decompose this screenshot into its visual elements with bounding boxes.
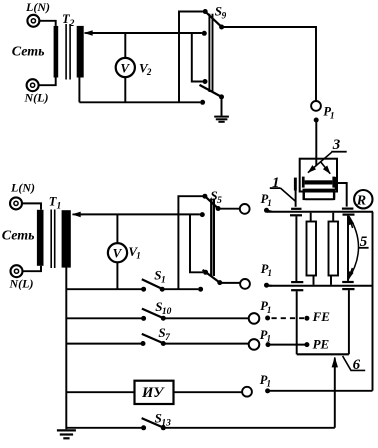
svg-text:P1: P1	[261, 262, 272, 278]
switch S5 pole1 feed vertical	[178, 196, 202, 289]
wire T2 tap to S9 contact	[92, 32, 202, 34]
svg-text:V: V	[113, 245, 123, 260]
node: dot P1 (S5 pole2)	[264, 283, 269, 288]
svg-text:T2: T2	[62, 12, 75, 29]
svg-text:P1: P1	[260, 373, 271, 389]
svg-text:L(N): L(N)	[10, 181, 35, 195]
node: dot P1 (S10 row)	[265, 316, 270, 321]
switch S10 blade	[142, 309, 163, 319]
wire T1 tap to S5	[75, 213, 200, 215]
wire S7 to P1	[163, 343, 248, 345]
wire T1 secondary bottom / ground bus	[65, 268, 67, 430]
wire V1 top stem	[116, 214, 118, 243]
bottom rail wire	[268, 285, 373, 287]
svg-text:S9: S9	[215, 4, 227, 22]
wire L(N) to T1 primary top	[22, 203, 41, 209]
wire S7 row left	[66, 343, 143, 345]
node: contact dot S1 right	[160, 287, 165, 292]
terminal L(N) of T1	[10, 197, 22, 209]
dashed wire P1 to FE	[272, 317, 305, 319]
terminal P1 (S7 row)	[249, 339, 260, 350]
node: contact dot S5 pole1 lower	[200, 212, 205, 217]
label 5 leader arc	[348, 216, 359, 280]
node: contact dot S5 pole1 output	[216, 206, 221, 211]
wire S5 pole1 output to P1	[218, 208, 240, 210]
upper roller of device 3	[302, 177, 335, 188]
box left edge wire	[296, 291, 298, 354]
lower roller of device 3	[303, 189, 336, 200]
ground bottom-left	[57, 430, 76, 438]
right plate below bottom rail	[342, 288, 354, 290]
node: contact dot S13 left	[141, 425, 146, 430]
electrode device box (item 3)	[300, 159, 337, 192]
svg-text:6: 6	[353, 357, 361, 373]
svg-text:V2: V2	[139, 60, 152, 77]
switch S13 blade	[142, 418, 164, 428]
terminal P1 (S10 row)	[249, 313, 260, 324]
svg-text:P1: P1	[260, 299, 271, 315]
wire P1 dot to bottom rail	[267, 284, 273, 286]
terminal N(L) of T1	[11, 265, 23, 277]
circled R instrument	[354, 190, 372, 209]
terminal P1 (S5 pole1)	[240, 204, 250, 214]
left electrode bracket (item 1)	[294, 178, 297, 191]
svg-text:FE: FE	[312, 309, 331, 324]
wire S13 to appliance arrow	[163, 427, 334, 429]
tap arrow on T1 secondary	[73, 213, 83, 215]
wire S1 row left	[66, 288, 143, 290]
svg-text:ИУ: ИУ	[141, 385, 165, 401]
svg-text:N(L): N(L)	[9, 277, 34, 291]
node: contact dot S5 pole2	[203, 270, 208, 275]
svg-text:P1: P1	[261, 192, 272, 208]
node PE	[304, 342, 309, 347]
switch S5 pole1 blade	[205, 196, 218, 208]
wire S10 to P1	[163, 317, 248, 319]
node: contact dot S9 pole1 top	[203, 9, 208, 14]
switch S9 pole1 blade	[205, 12, 221, 27]
node: dot under P1 top-right	[314, 118, 319, 123]
svg-text:PE: PE	[313, 337, 330, 352]
mechanical link S9	[209, 14, 212, 92]
left plate below bottom rail	[291, 289, 303, 291]
svg-text:S1: S1	[154, 268, 165, 286]
label 6 leader	[343, 356, 366, 370]
wire S9 feed vertical	[179, 12, 203, 103]
transformer T1	[37, 210, 71, 269]
svg-text:L(N): L(N)	[25, 0, 50, 14]
node: contact dot S13 right	[161, 425, 166, 430]
wire P1 dot to top rail	[267, 211, 273, 212]
terminal P1 (ИУ row)	[242, 387, 252, 397]
wire V2 bottom stem	[124, 77, 126, 102]
wire S1 to S5 lower contact	[162, 288, 198, 290]
left electrode plate above top rail	[291, 208, 301, 210]
right plate above bottom rail	[342, 281, 354, 283]
tap arrow on T2 secondary	[85, 32, 95, 34]
svg-text:N(L): N(L)	[24, 91, 49, 105]
wire V1 bottom stem	[116, 262, 118, 289]
wire L(N) to T2 primary top	[40, 21, 56, 26]
terminal L(N) of T2	[27, 15, 39, 27]
node: contact dot S5 pole2 lower	[198, 287, 203, 292]
node: contact dot S10 right	[161, 316, 166, 321]
wire S9 output to P1 top terminal	[222, 27, 316, 101]
wire T2 secondary bottom to V2 rail	[78, 77, 80, 102]
terminal P1 top-right	[311, 101, 321, 111]
appliance box bottom (item 6)	[297, 353, 349, 355]
switch S1 blade	[142, 279, 163, 289]
wire S13 row left	[66, 427, 143, 429]
node: contact dot S5 pole1	[202, 194, 207, 199]
right vertical wire	[372, 212, 374, 391]
node: contact dot S1 left	[141, 287, 146, 292]
node: contact dot S10 left	[141, 316, 146, 321]
right electrode plate above top rail	[342, 208, 354, 210]
voltmeter V2	[116, 58, 135, 77]
arrow into appliance box	[334, 359, 336, 428]
wire S5 pole2 feed	[190, 214, 203, 272]
resistor R2	[329, 213, 339, 285]
left plate below top rail	[290, 214, 302, 216]
node: contact dot S9 pole2 output	[219, 94, 224, 99]
wire N(L) to T1 primary bottom	[23, 266, 42, 271]
wire N(L) to T2 primary bottom	[39, 78, 56, 86]
svg-text:Сеть: Сеть	[2, 228, 35, 243]
leader line of label 1	[281, 188, 296, 201]
svg-text:V1: V1	[128, 244, 140, 261]
leader line of label 3	[308, 152, 332, 172]
node: dot P1 (S7 row)	[266, 342, 271, 347]
svg-text:S7: S7	[158, 325, 171, 343]
voltmeter V1	[108, 243, 127, 262]
switch S9 pole2 blade	[200, 85, 222, 97]
right electrode jog and leg	[338, 183, 347, 207]
wire V2 top stem	[124, 33, 126, 58]
right column stem	[347, 216, 349, 281]
leader arrow 2 of label 3	[321, 162, 331, 174]
resistor R1	[307, 213, 317, 285]
node: contact dot S9 pole2	[203, 79, 208, 84]
top rail wire	[267, 211, 373, 213]
mechanical link S5	[211, 199, 214, 277]
switch S5 pole2 blade	[203, 270, 220, 283]
wire P1 to PE	[270, 344, 307, 346]
box right edge wire	[348, 290, 350, 354]
node: contact dot S7 right	[161, 341, 166, 346]
right plate below top rail	[343, 214, 355, 216]
svg-text:T1: T1	[49, 194, 61, 211]
svg-text:Сеть: Сеть	[12, 45, 45, 60]
svg-text:R: R	[356, 194, 366, 209]
wire S10 row left	[66, 317, 143, 319]
wire S5 pole2 output to P1	[220, 282, 240, 284]
node: dot P1 (ИУ row)	[265, 388, 270, 393]
terminal P1 (S5 pole2)	[240, 279, 250, 289]
wire bus to ИУ	[66, 391, 134, 393]
right electrode bracket	[335, 177, 338, 190]
svg-text:P1: P1	[260, 328, 271, 344]
svg-text:P1: P1	[323, 105, 334, 121]
transformer T2	[54, 24, 84, 80]
node: contact dot S9 pole1 output	[219, 25, 224, 30]
wire S9 pole2 feed	[192, 33, 203, 81]
wire V2 bottom rail	[79, 101, 200, 103]
node: dot P1 (S5 pole1)	[264, 208, 269, 213]
node FE	[304, 316, 309, 321]
wire P1 to right vertical	[269, 390, 373, 392]
left electrode leg	[295, 191, 297, 207]
switch S7 blade	[142, 334, 164, 343]
node: contact dot S9 bottom rail end	[200, 100, 205, 105]
measuring unit ИУ box	[135, 381, 174, 404]
node: contact dot S7 left	[141, 341, 146, 346]
wire S9 pole2 to ground	[221, 97, 223, 116]
svg-text:V: V	[120, 60, 130, 75]
node: contact dot S5 pole2 output	[217, 280, 222, 285]
svg-text:S10: S10	[155, 299, 171, 317]
ground under S9	[214, 117, 229, 122]
node: contact dot S9 lower-left	[202, 31, 207, 36]
left column stem	[295, 216, 297, 281]
left plate above bottom rail	[291, 281, 303, 283]
wire P1 to electrode device 3	[315, 122, 317, 166]
terminal N(L) of T2	[27, 79, 39, 91]
wire ИУ to P1	[174, 391, 242, 393]
